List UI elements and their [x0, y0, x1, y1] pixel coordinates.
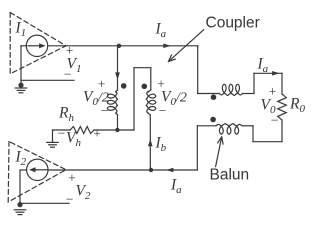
- svg-text:+: +: [98, 76, 106, 91]
- svg-text:Balun: Balun: [210, 166, 250, 183]
- svg-text:−: −: [101, 103, 109, 118]
- svg-text:+: +: [269, 84, 277, 99]
- svg-text:+: +: [93, 126, 101, 141]
- svg-text:+: +: [66, 43, 74, 58]
- svg-text:−: −: [66, 191, 74, 206]
- svg-text:Coupler: Coupler: [206, 15, 260, 32]
- svg-text:−: −: [159, 103, 167, 118]
- svg-text:−: −: [64, 66, 72, 81]
- svg-text:+: +: [157, 76, 165, 91]
- svg-text:+: +: [68, 170, 76, 185]
- svg-text:−: −: [271, 112, 279, 127]
- svg-text:−: −: [57, 125, 65, 140]
